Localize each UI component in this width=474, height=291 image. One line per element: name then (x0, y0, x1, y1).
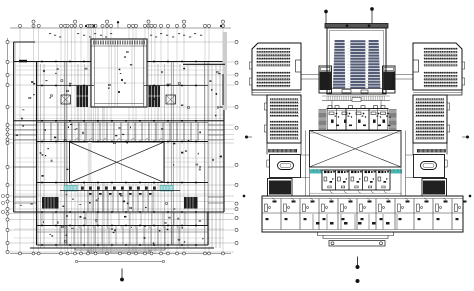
podium (342, 90, 351, 94)
atrium top hatch band (94, 41, 145, 45)
washroom fixture row (81, 187, 156, 190)
bottom office partitions (60, 226, 179, 246)
horizontal grid lines (9, 42, 234, 252)
right wing partitions (208, 125, 224, 203)
upper room walls (37, 85, 95, 87)
corridor to right wing (395, 75, 413, 80)
atrium double walls (91, 39, 147, 107)
cyan glazing strip left (64, 186, 77, 192)
duct block left (318, 109, 327, 130)
classroom lower (413, 95, 447, 143)
roof vents (328, 106, 385, 109)
corridor side walls (306, 131, 406, 197)
left wing partitions (14, 125, 37, 203)
right wall dark segment (222, 74, 224, 105)
outer small bubbles (1, 194, 4, 213)
cyan glazing strip right (160, 186, 173, 192)
secondary verticals (41, 64, 221, 248)
entrance porch (318, 232, 394, 239)
atrium hall with cross bracing (70, 142, 165, 183)
classroom divider wall (252, 92, 301, 94)
north dot (356, 279, 360, 283)
outer wall top-left wing (14, 42, 37, 212)
seat bank center (350, 40, 365, 89)
band door arcs (272, 199, 447, 203)
central hall with cross bracing (310, 131, 402, 168)
atrium interior horizontals (91, 68, 147, 83)
aisle steps left (347, 42, 350, 87)
left dimension line (7, 38, 9, 254)
meeting room (414, 155, 445, 178)
lower office door arcs (330, 190, 387, 193)
lower inner dimension line (78, 261, 162, 263)
bottom grid bubbles (19, 252, 225, 255)
left dark wall blob (19, 60, 27, 63)
section marker bottom (121, 269, 123, 278)
sill center box (352, 98, 361, 102)
office row furniture (329, 112, 391, 126)
cyan canopy strip (311, 170, 402, 174)
stair tower wing (268, 179, 293, 197)
wing side wall (252, 90, 301, 155)
band partitions (281, 199, 452, 230)
top dimension line (10, 27, 231, 29)
bottom entrance steps (75, 248, 165, 252)
hatched left wall (36, 62, 38, 244)
middle room band walls (14, 120, 224, 122)
seat bank right (368, 40, 380, 89)
seat bank left (333, 40, 345, 89)
meeting room (270, 155, 301, 178)
left low marker (243, 195, 245, 197)
louver bar (417, 149, 446, 153)
central upper office row (327, 109, 388, 131)
corridor to left wing (301, 75, 319, 80)
auditorium entry sill hatch (327, 96, 385, 101)
right wing group (mirrored) (413, 43, 465, 196)
top grid bubbles (18, 24, 224, 27)
right floor plan group (243, 7, 471, 283)
wing wall tabs (249, 62, 252, 69)
aud-office connectors (332, 101, 381, 109)
elevator E1 (61, 95, 71, 104)
wing side wall (413, 90, 462, 155)
central atrium block (91, 39, 147, 107)
main outer walls (14, 62, 224, 249)
conference table (278, 162, 294, 170)
bottom office walls (37, 225, 209, 227)
stage front line (330, 88, 383, 90)
apex marker (117, 24, 119, 29)
classroom upper (252, 43, 301, 90)
teacher alcove (296, 60, 302, 72)
scattered furniture marks (16, 52, 222, 245)
atrium interior verticals (109, 39, 147, 107)
section marker right plan (357, 257, 359, 266)
raised grid bubbles (32, 20, 225, 28)
duct block right (388, 109, 397, 130)
middle band door arcs (75, 139, 162, 142)
auditorium top marker 1 (325, 13, 327, 24)
right gray wall band (223, 32, 228, 110)
louver bar (268, 149, 297, 153)
bottom door arcs (63, 226, 178, 229)
band lower marks (316, 222, 390, 225)
top-right heavy wall (183, 63, 225, 65)
dimension tick smudges (49, 33, 202, 38)
stairwell S2 (149, 86, 161, 108)
cross brace X (70, 142, 165, 183)
middle band partitions (44, 123, 198, 142)
elevator E2 (166, 95, 176, 104)
right grid bubbles (235, 40, 238, 244)
corridor wall lines (64, 62, 208, 246)
bottom stair block left (42, 197, 59, 209)
left grid bubbles (6, 40, 9, 253)
column squares (41, 61, 197, 246)
corridor under offices (310, 192, 402, 194)
interior floor lines (14, 66, 224, 238)
stair tower right of auditorium (383, 66, 396, 93)
band desks (265, 201, 467, 221)
left wing group (249, 43, 301, 196)
conference table (421, 162, 437, 170)
bottom dimension line (10, 253, 231, 255)
stairwell S1 (77, 86, 89, 108)
aisle steps right (366, 42, 369, 87)
central lower office row (322, 170, 390, 190)
classroom upper (413, 43, 462, 90)
auditorium stage back wall (325, 24, 388, 29)
toilet block partitions (60, 190, 180, 192)
classroom lower (267, 95, 301, 143)
filled survey dots (85, 25, 222, 27)
vertical grid lines (20, 28, 223, 254)
right low marker (469, 195, 471, 197)
stair tower left of auditorium (319, 66, 332, 93)
left side reference marker (245, 136, 248, 139)
band center subdivisions (313, 214, 397, 230)
auditorium outline (327, 28, 386, 94)
toilet fixtures (89, 193, 152, 195)
wing-center connectors (301, 155, 413, 178)
stair tower wing (422, 179, 447, 197)
right side reference marker (466, 136, 469, 139)
teacher alcove (413, 60, 419, 72)
wing wall tabs (462, 62, 465, 69)
auditorium top marker 2 (371, 11, 373, 24)
bottom stair block right (184, 197, 198, 209)
left floor plan group (1, 20, 238, 281)
bottom band outline (262, 196, 463, 232)
classroom divider wall (413, 92, 462, 94)
left edge thick wall (14, 42, 16, 212)
